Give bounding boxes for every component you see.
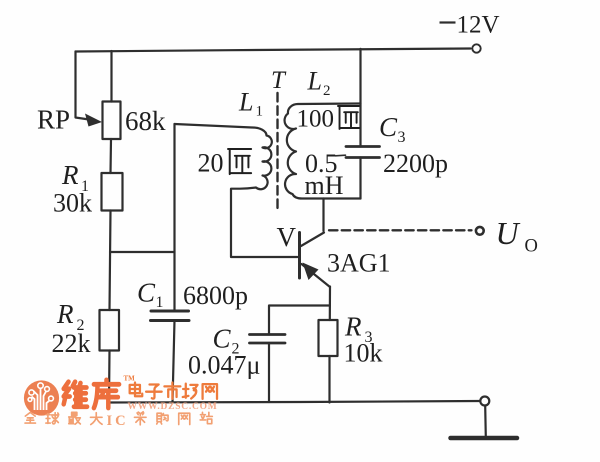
- label C1: [137, 278, 164, 312]
- wire node A junction R1-R2 to C1 branch: [110, 251, 175, 253]
- terminal ground: [480, 397, 489, 406]
- watermark brand char wei: [64, 382, 87, 407]
- value 68k: [125, 106, 166, 136]
- transistor V collector lead: [301, 233, 324, 247]
- wire collector tap from L2 bottom: [322, 199, 324, 232]
- watermark slogan quan-qiu-zui-da IC cai-gou-wang-zhan: [25, 412, 212, 425]
- svg-text:IC: IC: [107, 413, 129, 429]
- wire C2 to bottom rail: [268, 343, 270, 402]
- svg-text:L: L: [238, 88, 253, 117]
- wire rail to C3: [359, 49, 361, 147]
- label R3: [344, 312, 373, 347]
- svg-text:20: 20: [198, 149, 224, 178]
- label C3: [379, 112, 406, 146]
- inductor L1 primary winding with top wire, bottom wire and base lead: [175, 124, 298, 257]
- label UO output: [496, 215, 538, 257]
- wire RP top terminal to rail: [110, 51, 112, 102]
- value 6800p: [183, 281, 248, 310]
- potentiometer RP body 68k: [103, 102, 121, 140]
- value 20 turns: [198, 149, 252, 178]
- label R2: [56, 299, 85, 334]
- resistor R1 30k: [102, 173, 123, 211]
- label R1: [61, 160, 89, 195]
- wire RP bottom to R1: [109, 139, 112, 173]
- capacitor C3 2200p plates: [336, 147, 380, 158]
- svg-text:L: L: [307, 67, 322, 96]
- label RP: [37, 105, 70, 135]
- label C2: [213, 324, 240, 358]
- wire C3 bottom to L2 bottom: [359, 158, 361, 199]
- wire C1 branch vertical: [173, 124, 175, 311]
- svg-text:3: 3: [398, 129, 406, 146]
- svg-text:R: R: [61, 160, 79, 190]
- svg-text:100: 100: [297, 106, 335, 133]
- label L1: [238, 88, 263, 120]
- watermark url www.dzsc.com: [128, 402, 218, 412]
- transistor V emitter arrow (PNP): [303, 263, 319, 281]
- svg-text:12V: 12V: [457, 12, 500, 39]
- terminal UO output: [476, 227, 484, 235]
- wire R2 to bottom rail: [108, 351, 111, 403]
- svg-text:2: 2: [323, 83, 331, 99]
- value 10k: [344, 339, 383, 368]
- wire C2 branch from emitter: [269, 306, 330, 335]
- label -12V: [440, 12, 500, 39]
- capacitor C2 0.047u plates: [250, 335, 286, 344]
- watermark TM mark: [124, 375, 136, 383]
- svg-text:R: R: [344, 312, 362, 342]
- value 3AG1: [327, 249, 391, 278]
- wire R1 to R2: [110, 211, 111, 311]
- svg-text:0.047μ: 0.047μ: [188, 351, 260, 380]
- svg-text:O: O: [525, 237, 538, 257]
- label transistor V: [277, 222, 297, 252]
- wire dashed output line: [329, 229, 472, 231]
- value 100 turns: [297, 106, 360, 133]
- wire top supply rail: [76, 49, 471, 52]
- svg-text:mH: mH: [305, 171, 344, 200]
- value 22k: [52, 329, 91, 358]
- transistor V base bar: [298, 233, 301, 279]
- transistor V emitter lead: [302, 264, 331, 287]
- svg-text:10k: 10k: [344, 339, 383, 368]
- svg-text:WWW.DZSC.COM: WWW.DZSC.COM: [128, 402, 218, 412]
- value 30k: [53, 189, 92, 218]
- watermark slogan IC letters: [107, 413, 129, 429]
- capacitor C1 6800p plates: [151, 311, 190, 321]
- svg-text:C: C: [137, 278, 156, 308]
- value 0.5 mH: [305, 149, 344, 200]
- wire C1 to bottom rail: [173, 321, 175, 403]
- svg-text:30k: 30k: [53, 189, 92, 218]
- svg-text:V: V: [277, 222, 297, 252]
- svg-text:68k: 68k: [125, 106, 166, 136]
- svg-text:6800p: 6800p: [183, 281, 248, 310]
- value 0.047u: [188, 351, 260, 380]
- watermark text dian-zi-shi-chang-wang: [130, 383, 217, 399]
- wire ground lead: [484, 406, 487, 437]
- value 2200p: [383, 149, 448, 178]
- svg-text:1: 1: [256, 104, 264, 120]
- svg-text:2200p: 2200p: [383, 149, 448, 178]
- resistor R2 22k: [100, 310, 120, 351]
- node RP wiper arrow: [85, 114, 102, 127]
- terminal -12V: [472, 44, 480, 52]
- label T transformer: [271, 67, 287, 94]
- svg-text:RP: RP: [37, 105, 70, 135]
- svg-text:1: 1: [156, 294, 164, 311]
- wire bottom ground rail: [108, 401, 480, 403]
- watermark brand char ku: [94, 380, 119, 408]
- label L2: [307, 67, 331, 100]
- watermark logo circle: [24, 380, 59, 415]
- transformer core dashed line T: [276, 93, 278, 209]
- svg-text:22k: 22k: [52, 329, 91, 358]
- svg-text:C: C: [379, 112, 398, 142]
- svg-text:3AG1: 3AG1: [327, 249, 391, 278]
- svg-text:U: U: [496, 215, 521, 251]
- ground bar symbol: [451, 436, 518, 441]
- svg-text:C: C: [213, 324, 232, 354]
- wire RP wiper feed from rail: [76, 52, 90, 120]
- wire R3 to bottom rail: [328, 356, 330, 403]
- svg-text:TM: TM: [124, 375, 136, 383]
- inductor L2 secondary winding with top and bottom wires: [285, 104, 361, 199]
- wire emitter vertical to R3: [329, 287, 331, 321]
- svg-text:R: R: [56, 299, 74, 329]
- svg-text:T: T: [271, 67, 287, 94]
- resistor R3 10k: [319, 320, 338, 356]
